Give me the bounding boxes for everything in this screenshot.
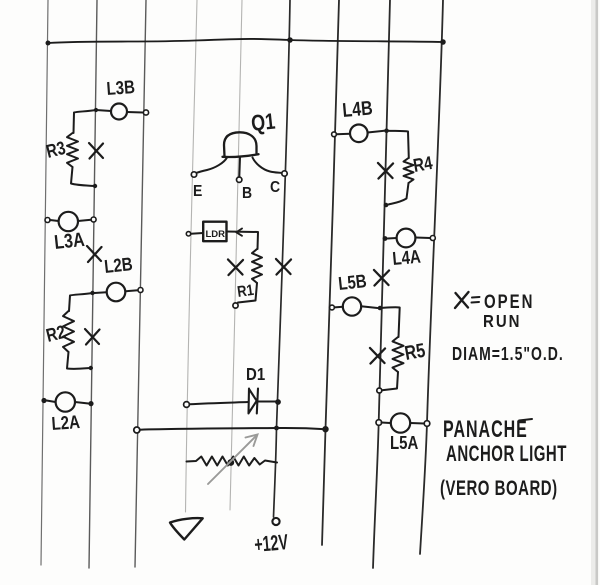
LDR right wire <box>227 232 259 250</box>
lamp L3B <box>111 104 127 120</box>
vero strip line 9 <box>420 0 443 554</box>
resistor R5 <box>393 337 404 372</box>
D1 right wire <box>258 401 276 403</box>
potentiometer track <box>187 457 278 466</box>
terminal L3A left on line1 <box>45 218 50 223</box>
wire line2 to R2 top <box>69 293 93 311</box>
svg-text:L5A: L5A <box>390 432 418 453</box>
terminal L4A right on line9 <box>430 236 435 241</box>
svg-text:D1: D1 <box>246 364 265 385</box>
macron accent over PANACHE final E <box>519 419 532 421</box>
junction L4B right on line8 <box>384 128 389 133</box>
junction top-left <box>46 41 51 46</box>
junction L2B left on line2 <box>90 291 94 295</box>
R1 bottom terminal on line5 <box>233 303 238 308</box>
terminal R5 bottom on line8 <box>377 388 382 393</box>
ground triangle at line4 bottom <box>170 518 203 539</box>
lamp L5A wires <box>382 423 425 424</box>
svg-text:+12V: +12V <box>253 529 289 557</box>
bus2 end junction on line7 <box>322 426 328 432</box>
svg-text:L2A: L2A <box>51 411 81 434</box>
svg-text:R4: R4 <box>412 152 435 176</box>
vero strip line 2 <box>89 0 97 568</box>
D1 junction on line6 <box>275 399 281 405</box>
svg-text:R1: R1 <box>236 282 255 302</box>
junction R3 bottom on line2 <box>93 184 97 188</box>
bus2 junction on line6 <box>274 426 279 431</box>
junction top line9 <box>440 39 446 45</box>
svg-text:OPEN: OPEN <box>484 290 534 312</box>
lamp L5A <box>391 413 410 432</box>
vero strip line 4 (faint) <box>186 0 198 512</box>
cut X on line6 <box>276 259 291 275</box>
svg-text:L5B: L5B <box>337 271 367 295</box>
junction top line6 <box>287 37 293 43</box>
terminal L2B right on line3 <box>138 288 143 293</box>
lamp L2B wires <box>95 290 139 293</box>
cut X on line2 mid <box>87 246 102 262</box>
wire R1 bottom to line5 <box>238 283 257 303</box>
cut X on line8 upper <box>378 163 393 179</box>
svg-text:DIAM=1.5"O.D.: DIAM=1.5"O.D. <box>452 344 564 364</box>
wire R4 bottom to line8 <box>389 183 409 205</box>
svg-text:L4B: L4B <box>341 97 373 122</box>
cut X on line2 lower <box>85 329 100 345</box>
junction L4A left on line8 <box>383 236 388 241</box>
wire line8 to R4 top <box>387 131 409 158</box>
wire R2 bottom to line2 <box>67 352 91 369</box>
+12V terminal circle <box>272 518 279 525</box>
transistor Q1 body <box>223 132 259 157</box>
resistor R4 <box>404 158 414 183</box>
terminal L5A right on line9 <box>424 421 430 427</box>
terminal L5B left on line7 <box>330 305 335 310</box>
svg-text:C: C <box>270 178 280 196</box>
svg-text:LDR: LDR <box>206 229 226 240</box>
junction R4 bottom on line8 <box>384 203 389 208</box>
bus2 wire <box>140 428 326 430</box>
svg-text:Q1: Q1 <box>250 110 276 137</box>
lamp L5B <box>343 297 361 315</box>
legend equals sign <box>472 297 480 303</box>
junction L2A left on line1 <box>41 398 46 403</box>
lamp L3A wires <box>50 220 91 221</box>
Q1 emitter lead <box>197 158 228 173</box>
resistor R1 <box>252 249 262 283</box>
vero strip line 7 <box>322 0 339 545</box>
diode D1 left terminal on line4 <box>184 402 190 408</box>
junction R2 bottom on line2 <box>89 366 93 370</box>
lamp L4A wires <box>388 238 431 239</box>
lamp L3A <box>59 212 78 231</box>
vero strip line 6 <box>274 0 291 517</box>
legend X mark <box>455 292 480 308</box>
vero strip line 5 (faint) <box>230 0 242 510</box>
lamp L4B left terminal on line7 <box>332 132 337 137</box>
svg-text:(VERO BOARD): (VERO BOARD) <box>440 475 558 499</box>
lamp L5B wires <box>335 306 378 308</box>
LDR junction arrow on line5 <box>236 229 242 236</box>
wire R5 bottom to line8 <box>382 372 398 390</box>
cut X on line5 <box>228 260 243 276</box>
diode D1 <box>249 389 259 414</box>
cut X on line2 upper <box>89 143 103 159</box>
bus2 left terminal on line3 <box>134 427 140 433</box>
lamp L3B wires <box>96 110 143 113</box>
vero strip line 3 <box>135 0 146 567</box>
D1 left wire <box>190 402 249 404</box>
svg-text:E: E <box>193 182 202 200</box>
terminal L5A left on line8 <box>376 420 382 426</box>
svg-text:B: B <box>242 184 252 202</box>
pot wiper arrow (pencil) <box>208 435 258 485</box>
resistor R2 <box>63 311 74 352</box>
scan edge shading right <box>591 0 597 585</box>
Q1 collector lead <box>253 158 283 174</box>
svg-text:L3A: L3A <box>53 228 85 253</box>
lamp L4B <box>350 125 368 143</box>
wire from line2 to R3 top <box>74 110 97 133</box>
top bus wire <box>48 39 443 43</box>
wire R3 bottom to line2 <box>71 167 95 186</box>
LDR left wire <box>191 232 203 235</box>
terminal L3A right on line2 <box>91 217 96 222</box>
lamp L2A <box>56 392 75 411</box>
svg-text:PANACHE: PANACHE <box>443 417 528 443</box>
lamp L2B <box>107 283 126 302</box>
lamp L4B wires <box>337 131 385 135</box>
svg-text:RUN: RUN <box>483 312 521 331</box>
Q1 base terminal <box>237 177 242 182</box>
resistor R3 <box>67 133 78 167</box>
cut X on line8 mid <box>374 270 389 286</box>
vero strip line 1 <box>41 0 48 565</box>
Q1 collector terminal <box>282 171 287 176</box>
junction L5B right on line8 <box>378 306 383 311</box>
cut X on line8 lower <box>370 348 385 364</box>
junction L3B left on line2 <box>94 108 98 112</box>
wire line8 to R5 top <box>380 307 400 337</box>
svg-text:L4A: L4A <box>392 246 422 269</box>
svg-text:L3B: L3B <box>106 76 136 99</box>
lamp L4A <box>397 229 416 248</box>
svg-text:ANCHOR LIGHT: ANCHOR LIGHT <box>446 442 567 467</box>
lamp L2A wires <box>47 401 89 404</box>
pot wiper junction on line5 <box>227 459 234 466</box>
svg-text:L2B: L2B <box>103 254 133 278</box>
svg-text:R5: R5 <box>403 339 427 364</box>
junction L2A right on line2 <box>88 401 93 406</box>
LDR box <box>203 222 226 242</box>
vero strip line 8 <box>373 0 390 568</box>
terminal on line3 (L3B right) <box>143 110 148 115</box>
LDR left terminal on line4 <box>186 232 190 236</box>
Q1 base lead <box>238 158 241 178</box>
Q1 emitter terminal <box>191 172 196 177</box>
